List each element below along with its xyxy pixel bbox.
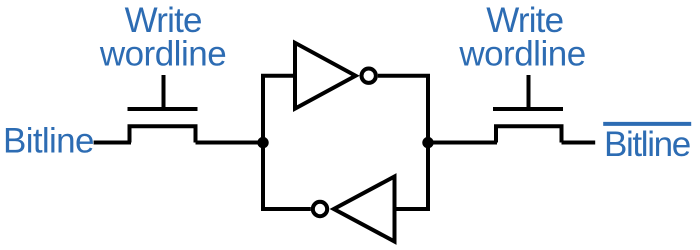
transistor Q1 channel path [130, 126, 196, 142]
wire: node Qbar down to inverter U2 input [395, 143, 429, 210]
node Q (junction dot) [257, 137, 268, 148]
transistor Q2 gate lead [527, 75, 531, 109]
inverter U2 triangle [334, 177, 395, 242]
wire: Q1 drain to node Q [196, 141, 264, 145]
transistor Q2 gate bar [493, 107, 563, 111]
node Qbar (junction dot) [422, 137, 433, 148]
wire: left Bitline to Q1 source [94, 141, 131, 145]
inverter U1 triangle [295, 43, 356, 109]
inverter U1 output bubble [362, 69, 376, 83]
wire: node Qbar to Q2 source [428, 141, 497, 145]
svg-text:Bitline: Bitline [3, 122, 94, 161]
svg-text:wordline: wordline [99, 35, 226, 74]
transistor Q1 gate lead [162, 75, 166, 109]
label: Write wordline (left) [99, 1, 226, 73]
transistor Q1 gate bar [128, 107, 198, 111]
wire: node Q up to inverter U1 input [263, 76, 295, 143]
wire: Q2 drain to right Bitline [562, 141, 596, 145]
wire: U1 output to node Qbar [378, 76, 428, 143]
net label: Bitline-bar (right) overline [603, 122, 691, 126]
transistor Q2 channel path [496, 126, 562, 142]
svg-text:wordline: wordline [458, 35, 585, 74]
inverter U2 output bubble [313, 202, 327, 216]
wire: U2 output to node Q [263, 143, 311, 210]
svg-text:Bitline: Bitline [604, 125, 690, 164]
label: Write wordline (right) [458, 1, 585, 73]
